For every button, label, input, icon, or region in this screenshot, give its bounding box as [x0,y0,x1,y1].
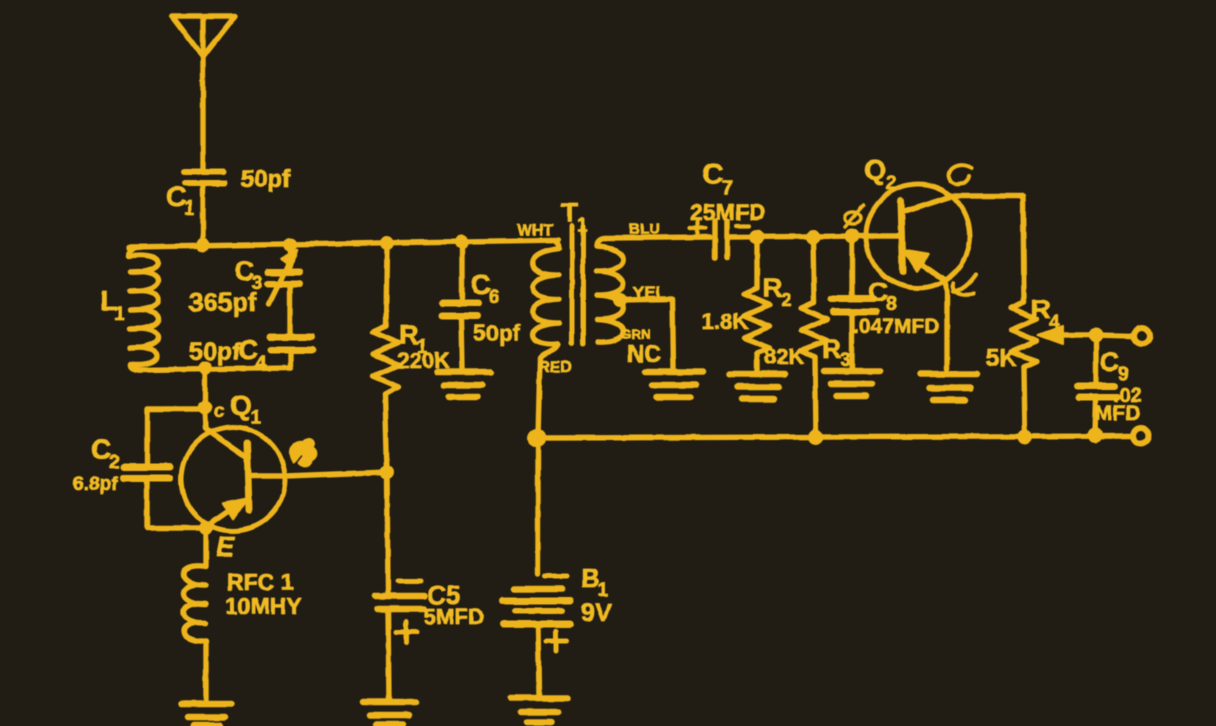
scribble phi (Q2 base) [845,205,864,227]
svg-text:WHT: WHT [517,222,554,239]
label c (collector Q1) [214,401,225,422]
inductor L1 [129,247,159,370]
label C9 [1100,347,1129,385]
label C6 [471,269,500,308]
wire bottom bus [537,436,1131,438]
resistor R3 [801,237,827,437]
resistor R2 [744,237,770,372]
svg-text:25MFD: 25MFD [690,199,765,225]
capacitor C2 with loop wires [123,409,204,528]
scribble mark right of Q1 [291,439,316,466]
terminal output bottom [1133,428,1149,444]
node R4 bottom [1018,430,1033,445]
label C4 [238,334,267,374]
svg-text:Q: Q [230,390,252,421]
node YEL tap [613,293,627,307]
label C7 [702,158,734,200]
capacitor C4 [270,337,313,368]
wire Q2 collector to R4 [953,196,1024,302]
svg-text:RFC 1: RFC 1 [227,569,294,595]
svg-text:1: 1 [577,215,588,236]
label T1 [561,197,588,236]
node C6 junction [455,235,469,249]
label RED [538,359,572,376]
svg-text:1.8K: 1.8K [702,309,749,334]
svg-text:7: 7 [722,177,734,200]
svg-text:.047MFD: .047MFD [853,315,939,338]
label L1 [100,285,125,325]
resistor R1 [373,245,399,472]
wiper arrow R4 [1038,326,1096,344]
label 50pf (C4) [189,338,241,366]
capacitor C9 [1077,335,1117,434]
wire Q1 base to R1 bottom [286,472,387,476]
svg-text:2: 2 [781,290,792,311]
svg-text:5K: 5K [986,345,1017,372]
transformer T1 core [572,226,583,344]
ground RFC1 [181,704,232,725]
svg-text:B: B [581,563,600,593]
wire R1 junction to C5 [387,472,388,593]
svg-text:1: 1 [114,304,125,325]
node R1 junction [380,236,394,250]
transistor Q1 [181,408,286,531]
wire C7 to Q2 base [729,236,866,237]
transformer T1 primary winding [533,240,559,344]
label GRN [620,326,651,342]
terminal output top [1134,328,1150,344]
inductor RFC1 [184,528,207,702]
label .047MFD [853,315,939,338]
node RED/B1 junction [528,429,547,448]
wire tank bottom [138,368,291,370]
label WHT [517,222,554,239]
svg-text:2: 2 [886,173,897,194]
svg-text:2: 2 [109,452,120,473]
svg-text:50pf: 50pf [241,166,291,193]
label R2 [763,273,792,311]
capacitor C8 [831,236,876,369]
wire C5 to ground [388,609,389,701]
wire top bus [129,240,558,247]
label R4 [1031,294,1060,333]
svg-text:R: R [763,273,783,303]
ground B1 [510,698,568,722]
svg-text:R: R [1031,294,1051,324]
scribble E (Q2 emitter) [953,274,976,295]
label 9V [581,599,612,627]
resistor R4 (potentiometer) [1011,302,1037,437]
ground Q2 emitter [920,374,977,400]
label R1 [399,319,428,358]
svg-text:1: 1 [598,580,609,601]
label 365pf [189,287,257,317]
label C5 [427,580,460,610]
label + (C7) [690,221,706,236]
node R2 top [750,230,765,245]
svg-text:5MFD: 5MFD [424,604,484,629]
antenna [172,16,235,170]
svg-text:6: 6 [489,287,500,308]
wire BLU lead to C7 [604,237,710,238]
node base junction [380,465,394,479]
node R3 bottom [809,430,824,445]
node C9 bottom [1088,428,1103,443]
svg-text:6.8pf: 6.8pf [73,474,118,495]
svg-text:Q: Q [864,154,886,185]
svg-text:4: 4 [256,353,267,374]
wire tank to Q1 collector [202,368,207,407]
label 6.8pf [73,474,118,495]
battery B1 [502,438,570,696]
node Q1 collector junction [198,401,212,415]
svg-text:9V: 9V [581,599,612,627]
svg-text:1: 1 [184,198,195,219]
svg-text:c: c [214,401,225,422]
node tank bottom junction [198,361,212,375]
label .02 [1113,384,1142,407]
label C2 [91,434,120,473]
label R3 [822,334,851,371]
wire wiper to output terminal [1096,335,1132,336]
label 5MFD [424,604,484,629]
svg-text:50pf: 50pf [189,338,241,366]
capacitor C6 [442,242,479,370]
label RFC 1 [227,569,294,595]
label B1 [581,563,609,601]
label 1.8K [702,309,749,334]
scribble C (Q2 collector) [949,165,972,184]
capacitor C7 [715,221,727,258]
ground YEL/NC [645,372,703,397]
wire Q2 emitter to ground [944,280,947,369]
svg-text:9: 9 [1118,364,1129,385]
label C1 [166,181,195,219]
label 82K [764,344,804,369]
node R3 top [806,230,821,245]
wire YEL tap to ground [620,299,673,369]
label C3 [234,255,263,294]
label E (Q1 emitter) [216,531,236,562]
label C8 [868,276,897,315]
svg-text:MFD: MFD [1095,402,1141,425]
ground C5 [363,702,416,724]
svg-text:T: T [561,197,578,228]
svg-text:RED: RED [538,359,572,376]
node antenna junction [196,238,210,252]
svg-text:GRN: GRN [620,326,651,342]
svg-text:82K: 82K [764,344,804,369]
transformer T1 secondary winding [597,238,623,342]
label Q1 [230,390,262,429]
svg-text:1: 1 [251,408,262,429]
label MFD (C9) [1095,402,1141,425]
svg-text:50pf: 50pf [473,320,521,346]
node C8 top [845,229,860,244]
wire C1 to top bus [200,185,205,245]
svg-text:10MHY: 10MHY [225,593,302,619]
label NC [627,341,662,368]
label BLU [629,221,660,238]
svg-text:NC: NC [627,341,662,368]
svg-text:365pf: 365pf [189,287,257,317]
label - (C7) [736,224,749,228]
label 5K [986,345,1017,372]
label 10MHY [225,593,302,619]
capacitor C1 [184,172,225,183]
label 25MFD [690,199,765,225]
ground R2 [730,374,785,399]
ground C6 [437,372,491,397]
svg-text:R: R [822,334,842,364]
label YEL [633,283,666,302]
svg-text:8: 8 [886,294,897,315]
capacitor C5 [375,581,424,643]
capacitor C3 (variable) [268,247,300,335]
svg-text:E: E [216,531,236,562]
label 50pf (C1) [241,166,291,193]
node Q1 emitter junction [199,521,213,535]
wire T1 RED lead [538,344,558,437]
label 50pf (C6) [473,320,521,346]
svg-text:C: C [1100,347,1120,377]
label 220K [397,348,450,373]
node C3 junction [283,238,297,252]
transistor Q2 [866,184,970,288]
ground C8 [824,371,880,396]
label Q2 [864,154,897,194]
node wiper junction [1089,328,1104,343]
svg-text:C: C [702,158,724,191]
